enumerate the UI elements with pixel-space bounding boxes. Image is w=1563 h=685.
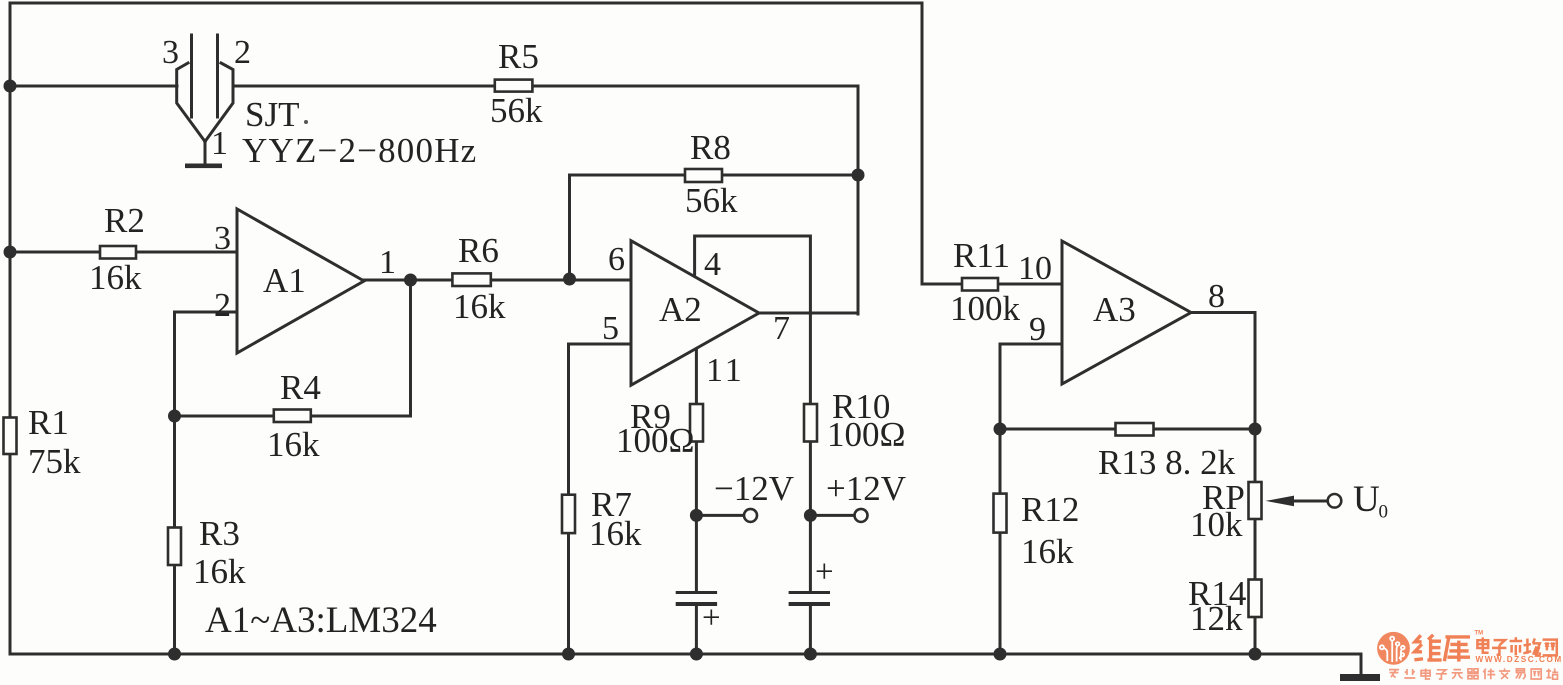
wire R11 input <box>922 283 1062 286</box>
svg-text:16k: 16k <box>89 258 142 297</box>
svg-text:16k: 16k <box>193 552 246 591</box>
crystal SJT YYZ-2-800Hz <box>177 35 233 166</box>
resistor R6 <box>452 231 506 326</box>
resistor R14 <box>1188 574 1262 638</box>
resistor R9 <box>616 397 703 460</box>
svg-text:9: 9 <box>1029 311 1046 348</box>
svg-text:12k: 12k <box>1190 599 1243 638</box>
wire A3 pin9 <box>1000 344 1062 654</box>
node junction rail R12 <box>994 648 1007 661</box>
svg-text:U: U <box>1353 479 1380 520</box>
wire C1 to rail <box>695 604 698 654</box>
svg-text:+12V: +12V <box>826 469 906 508</box>
node junction +12V <box>804 509 817 522</box>
capacitor C1 <box>676 593 721 637</box>
wire R10 cap to rail <box>809 604 812 654</box>
svg-text:R8: R8 <box>690 128 731 167</box>
svg-text:100k: 100k <box>950 289 1021 328</box>
node junction x858 R8 <box>852 169 865 182</box>
svg-text:16k: 16k <box>267 425 320 464</box>
svg-text:−12V: −12V <box>714 469 794 508</box>
op-amp A2 <box>631 241 759 386</box>
watermark slogan row <box>1389 668 1558 679</box>
svg-text:5: 5 <box>602 310 619 347</box>
wire A2 pin4 box <box>695 236 811 592</box>
svg-text:16k: 16k <box>589 514 642 553</box>
svg-text:100Ω: 100Ω <box>827 415 906 454</box>
svg-text:R2: R2 <box>104 201 145 240</box>
node junction rail C1 <box>690 648 703 661</box>
wire -12V stub <box>696 514 743 517</box>
terminal -12V <box>744 509 757 522</box>
node junction rail R14 <box>1249 648 1262 661</box>
resistor R5 <box>490 37 543 130</box>
svg-text:100Ω: 100Ω <box>616 421 695 460</box>
wire crystal input line <box>10 85 177 88</box>
resistor R13 <box>1098 423 1236 482</box>
svg-text:A1: A1 <box>263 261 306 300</box>
svg-text:11: 11 <box>706 352 745 389</box>
label U0 output <box>1353 479 1388 523</box>
svg-text:A2: A2 <box>659 290 702 329</box>
svg-text:16k: 16k <box>1021 532 1074 571</box>
svg-text:56k: 56k <box>490 91 543 130</box>
wire +12V stub <box>810 514 854 517</box>
wire A1 output to A2 pin6 <box>364 279 631 282</box>
op-amp A3 <box>1062 241 1191 384</box>
potentiometer RP <box>1190 478 1341 544</box>
svg-text:+: + <box>815 554 834 590</box>
node junction A1 output <box>404 274 417 287</box>
svg-text:16k: 16k <box>453 287 506 326</box>
resistor R11 <box>950 236 1021 328</box>
svg-text:A1~A3:LM324: A1~A3:LM324 <box>205 600 437 641</box>
wire left bus <box>9 3 12 654</box>
node junction R13 left <box>994 423 1007 436</box>
svg-text:R12: R12 <box>1021 490 1079 529</box>
node junction rail R3 <box>168 648 181 661</box>
node junction left bus R2 <box>4 246 17 259</box>
node junction left bus crystal <box>4 80 17 93</box>
capacitor C2 <box>789 554 834 604</box>
wire A2 pin5 <box>569 344 632 654</box>
node junction rail R7 <box>562 648 575 661</box>
svg-text:R3: R3 <box>199 514 240 553</box>
wire A1 pin2 line <box>175 312 238 654</box>
svg-text:7: 7 <box>773 310 790 347</box>
svg-text:R13 8. 2k: R13 8. 2k <box>1098 443 1236 482</box>
svg-text:1: 1 <box>211 125 228 162</box>
svg-text:R11: R11 <box>953 236 1010 275</box>
svg-text:2: 2 <box>234 34 251 71</box>
resistor R2 <box>89 201 145 297</box>
svg-text:10k: 10k <box>1190 505 1243 544</box>
node junction R4-R3 <box>168 410 181 423</box>
node junction rail C2 <box>804 648 817 661</box>
svg-text:R1: R1 <box>28 403 69 442</box>
wire R2 input line <box>10 251 237 254</box>
svg-text:3: 3 <box>214 220 231 257</box>
node junction pin6 <box>563 273 576 286</box>
terminal +12V <box>855 509 868 522</box>
watermark logo circle icon <box>1377 632 1410 665</box>
svg-text:0: 0 <box>1379 502 1389 523</box>
wire top rail <box>10 3 922 284</box>
watermark text dianzishichangwang <box>1477 637 1556 655</box>
svg-text:6: 6 <box>608 241 625 278</box>
wire R13 line <box>1000 428 1255 431</box>
wire R8 feedback line <box>570 175 859 279</box>
wire A2 pin11 <box>695 349 698 592</box>
svg-text:4: 4 <box>704 246 721 283</box>
resistor R3 <box>168 514 246 591</box>
op-amp A1 <box>237 209 364 353</box>
ground crystal <box>185 164 222 169</box>
wire R4 feedback line <box>175 280 411 416</box>
svg-text:1: 1 <box>379 244 396 281</box>
svg-text:2: 2 <box>214 287 231 324</box>
resistor R8 <box>685 128 738 220</box>
svg-text:75k: 75k <box>28 442 81 481</box>
wire A3 output <box>1191 313 1255 655</box>
svg-text:R4: R4 <box>280 368 321 407</box>
resistor R10 <box>804 387 906 454</box>
svg-text:SJT: SJT <box>245 95 299 134</box>
wire A2 output <box>759 312 858 315</box>
wire crystal to R5 to x858 <box>233 86 858 314</box>
watermark text weiku <box>1414 635 1470 662</box>
wire bottom rail <box>10 653 1361 656</box>
svg-text:3: 3 <box>162 34 179 71</box>
resistor R7 <box>562 485 642 553</box>
svg-text:+: + <box>702 600 721 636</box>
svg-text:8: 8 <box>1208 278 1225 315</box>
svg-text:10: 10 <box>1018 250 1052 287</box>
resistor R4 <box>267 368 321 464</box>
svg-text:YYZ−2−800Hz: YYZ−2−800Hz <box>242 131 477 170</box>
resistor R1 <box>4 403 82 481</box>
svg-text:R6: R6 <box>458 231 499 270</box>
node junction R13 right <box>1249 423 1262 436</box>
svg-text:TM: TM <box>1475 631 1484 637</box>
resistor R12 <box>994 490 1080 571</box>
svg-text:A3: A3 <box>1093 290 1136 329</box>
svg-text:56k: 56k <box>685 181 738 220</box>
node junction -12V <box>690 509 703 522</box>
svg-text:R5: R5 <box>498 37 539 76</box>
svg-text:WWW.DZSC.COM: WWW.DZSC.COM <box>1476 655 1563 664</box>
ground main <box>1340 654 1380 681</box>
